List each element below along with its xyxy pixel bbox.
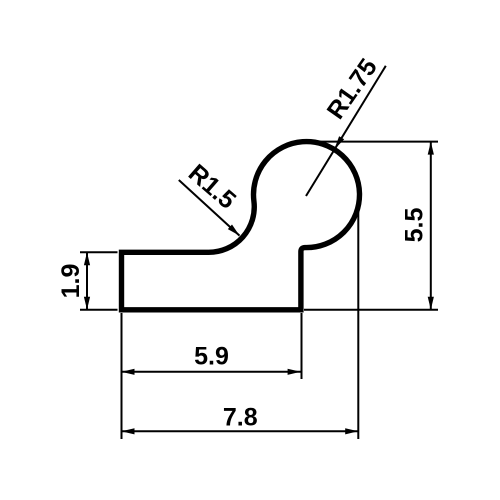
svg-text:7.8: 7.8 bbox=[223, 404, 258, 432]
svg-text:5.9: 5.9 bbox=[194, 343, 229, 371]
svg-text:R1.75: R1.75 bbox=[322, 53, 383, 124]
svg-text:5.5: 5.5 bbox=[401, 208, 429, 243]
svg-text:1.9: 1.9 bbox=[57, 264, 85, 299]
svg-text:R1.5: R1.5 bbox=[183, 159, 241, 215]
